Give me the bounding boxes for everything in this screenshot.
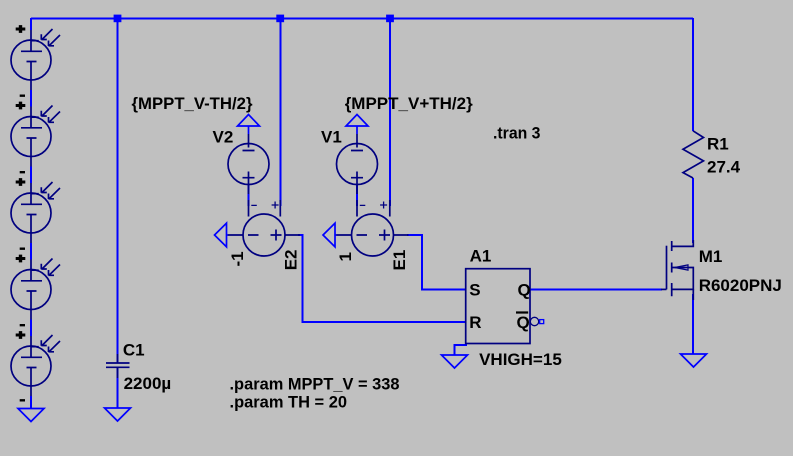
svg-text:Q: Q: [517, 313, 530, 332]
voltage source V2: [228, 134, 269, 194]
svg-text:1: 1: [336, 252, 355, 261]
svg-text:E1: E1: [390, 250, 409, 271]
E2 control polarity marks: [251, 202, 278, 209]
wire V2 to E2: [248, 184, 250, 206]
flip-flop A1 box: [466, 269, 530, 344]
nmos M1: [661, 240, 693, 300]
wire A1 com to ground: [455, 344, 467, 356]
resistor R1: [683, 131, 704, 178]
ground A1: [442, 355, 468, 368]
junction E2: [276, 15, 284, 23]
pv cell 1: [11, 29, 60, 90]
svg-text:E2: E2: [281, 250, 300, 271]
junction C1: [114, 15, 122, 23]
svg-text:Q: Q: [518, 280, 531, 299]
wire M1 source to ground: [692, 294, 694, 354]
A1 qbar bubble: [530, 317, 538, 325]
pv cell 3: [11, 182, 60, 243]
wire C1 drop: [117, 18, 119, 362]
ground M1: [681, 354, 707, 367]
pv cell 4: [11, 259, 60, 320]
pv cell 2: [11, 106, 60, 167]
vcvs E2: [228, 200, 300, 256]
svg-text:R1: R1: [707, 135, 729, 154]
vcvs E1: [337, 200, 409, 256]
wire E2 control drop: [279, 18, 281, 206]
junction E1: [386, 15, 394, 23]
svg-text:{MPPT_V-TH/2}: {MPPT_V-TH/2}: [132, 94, 253, 113]
svg-text:S: S: [469, 280, 480, 299]
svg-text:R: R: [469, 313, 481, 332]
svg-text:2200µ: 2200µ: [124, 374, 172, 393]
wire E1 control drop: [389, 18, 391, 206]
svg-text:27.4: 27.4: [707, 158, 741, 177]
svg-text:R6020PNJ: R6020PNJ: [699, 276, 782, 295]
svg-text:{MPPT_V+TH/2}: {MPPT_V+TH/2}: [345, 94, 473, 113]
wire R1 to M1 drain: [692, 178, 694, 243]
svg-text:V2: V2: [213, 128, 234, 147]
svg-text:VHIGH=15: VHIGH=15: [479, 350, 562, 369]
voltage source V1: [337, 134, 378, 194]
svg-text:.tran 3: .tran 3: [493, 124, 541, 143]
wire R1 top: [692, 18, 694, 131]
wire E1 out to S pin: [407, 235, 466, 289]
A1 floating pin square: [540, 320, 544, 324]
svg-text:.param TH = 20: .param TH = 20: [230, 393, 348, 412]
flag left of E2: [215, 223, 229, 247]
svg-text:.param MPPT_V = 338: .param MPPT_V = 338: [230, 375, 400, 394]
svg-text:-1: -1: [228, 251, 247, 266]
wire Q to gate: [530, 288, 662, 290]
ground C1: [105, 408, 131, 421]
ground PV chain: [18, 409, 44, 422]
svg-text:V1: V1: [321, 128, 342, 147]
PV cell V(photovoltaic) stack: [11, 29, 60, 396]
wire C1 to ground: [117, 368, 119, 408]
wire left PV chain: [30, 18, 32, 409]
svg-text:M1: M1: [699, 247, 723, 266]
E1 control polarity marks: [360, 202, 387, 209]
pv polarity labels: [16, 25, 26, 400]
wire V1 to E1: [356, 184, 358, 206]
wire top bus: [31, 18, 693, 409]
flag above V1: [346, 115, 368, 135]
svg-text:C1: C1: [123, 340, 145, 359]
svg-text:A1: A1: [470, 247, 492, 266]
pv cell 5: [11, 335, 60, 396]
Q overbar: [516, 311, 528, 313]
flag left of E1: [323, 223, 337, 247]
flag above V2: [238, 115, 260, 135]
wire E2 out to R pin: [298, 235, 466, 322]
capacitor C1: [106, 354, 130, 378]
